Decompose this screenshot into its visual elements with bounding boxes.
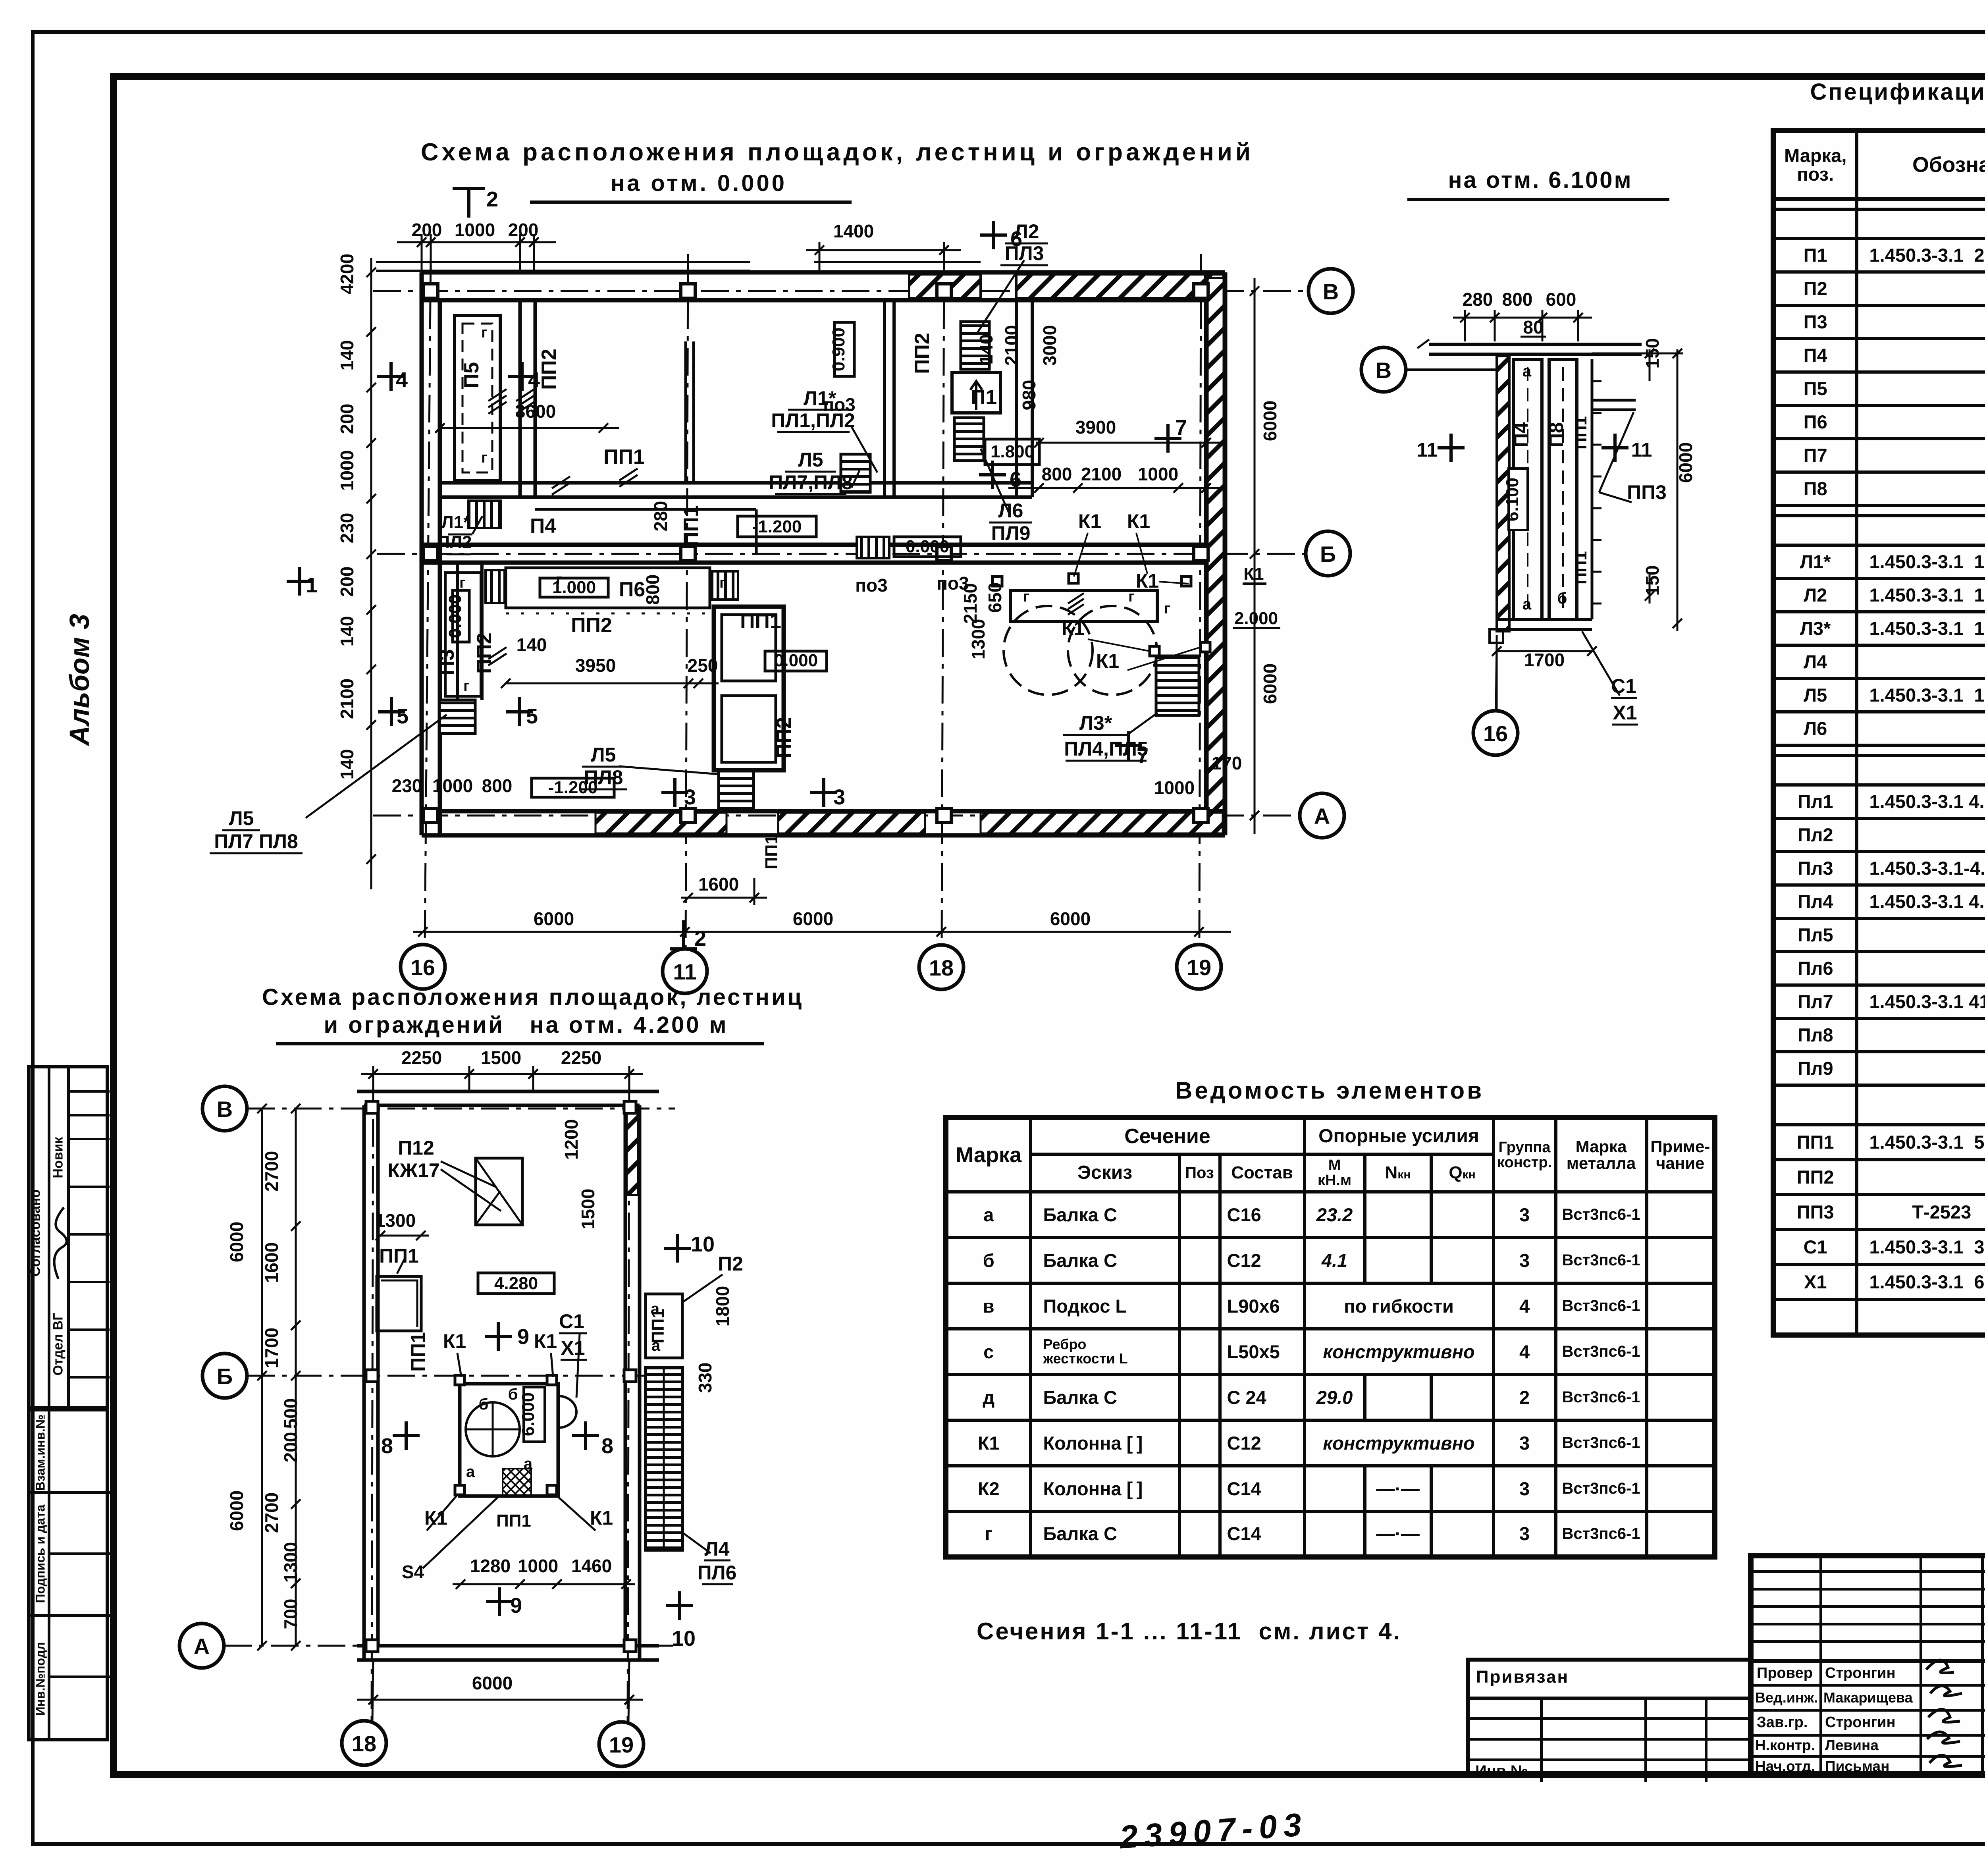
plan2 flag numbers bbox=[381, 1232, 715, 1650]
svg-text:6000: 6000 bbox=[226, 1222, 247, 1262]
axis line 19 bbox=[1199, 254, 1201, 945]
svg-text:2700: 2700 bbox=[261, 1492, 282, 1533]
section left hatched column bbox=[1497, 356, 1509, 631]
stair L6 bbox=[954, 418, 984, 461]
svg-text:3600: 3600 bbox=[515, 401, 556, 422]
svg-text:1600: 1600 bbox=[261, 1242, 282, 1283]
svg-text:Л5: Л5 bbox=[229, 807, 254, 829]
column squares at axis crossings bbox=[424, 284, 1208, 823]
svg-text:4: 4 bbox=[396, 368, 408, 392]
svg-text:2250: 2250 bbox=[401, 1047, 442, 1068]
privyazan block bbox=[1466, 1658, 1752, 1778]
signatures squiggles bbox=[1922, 1654, 1985, 1773]
interior wall vertical 1 bbox=[518, 300, 522, 497]
svg-text:Л3*: Л3* bbox=[1079, 712, 1112, 734]
svg-text:Л4: Л4 bbox=[705, 1538, 730, 1560]
stair L2 top right bbox=[961, 322, 989, 369]
interior wall vertical 3 bbox=[1015, 300, 1018, 497]
svg-text:К1: К1 bbox=[590, 1507, 613, 1529]
svg-text:ПП2: ПП2 bbox=[571, 614, 612, 637]
svg-text:2250: 2250 bbox=[561, 1047, 601, 1068]
svg-text:6000: 6000 bbox=[226, 1490, 247, 1531]
svg-text:150: 150 bbox=[1642, 565, 1663, 596]
svg-text:2: 2 bbox=[694, 927, 706, 951]
svg-text:200: 200 bbox=[337, 404, 357, 434]
dim 800 2100 1000 bbox=[1008, 487, 1225, 489]
svg-text:3: 3 bbox=[684, 785, 696, 809]
plan2 left wall bbox=[362, 1105, 366, 1660]
svg-text:П4: П4 bbox=[1510, 422, 1532, 447]
section В circle bbox=[1361, 347, 1518, 755]
svg-text:3950: 3950 bbox=[575, 655, 616, 676]
svg-text:К1: К1 bbox=[534, 1330, 557, 1352]
svg-text:г: г bbox=[719, 575, 726, 591]
svg-text:КЖ17: КЖ17 bbox=[387, 1159, 439, 1182]
svg-text:А: А bbox=[1314, 804, 1330, 829]
svg-text:11: 11 bbox=[673, 959, 696, 984]
svg-text:г: г bbox=[481, 449, 488, 466]
bottom-left outside dims bbox=[392, 775, 513, 796]
axis circles bbox=[401, 269, 1353, 993]
svg-text:С1: С1 bbox=[559, 1310, 584, 1332]
ПП2 rail line bbox=[506, 613, 710, 615]
axis line 18 bbox=[942, 254, 944, 945]
svg-text:4200: 4200 bbox=[337, 254, 357, 294]
flags plan2 bbox=[393, 1234, 693, 1620]
svg-text:ПП1: ПП1 bbox=[740, 610, 781, 633]
plan2 top wall bbox=[357, 1090, 659, 1093]
svg-text:80: 80 bbox=[1523, 317, 1543, 337]
tank circle 1 bbox=[1004, 606, 1093, 695]
interior wall vertical on axis 11 bbox=[684, 341, 687, 483]
svg-text:П4: П4 bbox=[530, 515, 556, 538]
svg-text:1500: 1500 bbox=[481, 1047, 521, 1068]
svg-text:1000: 1000 bbox=[455, 220, 495, 240]
svg-text:ПП1: ПП1 bbox=[762, 835, 781, 870]
svg-text:600: 600 bbox=[1546, 289, 1576, 310]
svg-text:200: 200 bbox=[337, 567, 357, 597]
К1 column squares bbox=[992, 574, 1210, 656]
svg-text:ПЛ7 ПЛ8: ПЛ7 ПЛ8 bbox=[214, 830, 298, 852]
axis line Б bbox=[377, 553, 1306, 555]
svg-text:4.280: 4.280 bbox=[494, 1274, 538, 1293]
svg-text:ПП1: ПП1 bbox=[1571, 551, 1590, 584]
tank circle 2 bbox=[1068, 606, 1157, 695]
svg-text:П3: П3 bbox=[436, 649, 459, 675]
svg-text:10: 10 bbox=[691, 1232, 715, 1256]
svg-text:230: 230 bbox=[337, 513, 357, 544]
svg-text:650: 650 bbox=[985, 582, 1005, 613]
specification table bbox=[1771, 128, 1985, 1338]
plan2 labels bbox=[379, 1137, 743, 1584]
plan2 axis Б bbox=[247, 1375, 675, 1377]
svg-text:11: 11 bbox=[1631, 439, 1652, 461]
svg-text:1300: 1300 bbox=[968, 619, 989, 659]
svg-text:ПП2: ПП2 bbox=[538, 349, 561, 390]
svg-text:ПП2: ПП2 bbox=[773, 717, 796, 758]
section axis В circle bbox=[1406, 368, 1505, 371]
dim line bottom 6000x3 bbox=[287, 189, 1259, 949]
crosshatch corner bbox=[503, 1469, 531, 1496]
axis line 11 bbox=[686, 254, 688, 949]
flag 2 bottom bbox=[670, 947, 697, 951]
svg-text:9: 9 bbox=[517, 1325, 529, 1349]
svg-text:140: 140 bbox=[516, 634, 547, 655]
section bottom dim bbox=[1497, 650, 1592, 652]
svg-text:2100: 2100 bbox=[1081, 464, 1122, 484]
П12 opening with diagonals bbox=[476, 1158, 522, 1225]
6.000 box bbox=[524, 1387, 545, 1442]
svg-text:ПЛ8: ПЛ8 bbox=[584, 766, 623, 789]
svg-text:330: 330 bbox=[695, 1363, 715, 1393]
svg-text:140: 140 bbox=[337, 340, 357, 371]
svg-text:а: а bbox=[651, 1300, 660, 1318]
svg-text:6: 6 bbox=[1010, 227, 1022, 251]
svg-text:Л1*: Л1* bbox=[441, 513, 470, 532]
svg-text:ПП1: ПП1 bbox=[496, 1511, 531, 1531]
К1 squares plan2 bbox=[455, 1375, 557, 1495]
svg-text:б: б bbox=[479, 1396, 489, 1413]
svg-text:ПП2: ПП2 bbox=[473, 632, 496, 674]
title: section at 6.100 bbox=[1413, 167, 1667, 193]
section right edge with railing ticks bbox=[1591, 359, 1594, 619]
svg-text:г: г bbox=[463, 678, 470, 694]
specification table title bbox=[1779, 79, 1985, 105]
svg-text:К1: К1 bbox=[1078, 510, 1101, 532]
svg-text:1300: 1300 bbox=[280, 1542, 301, 1583]
svg-text:ПП1: ПП1 bbox=[1571, 416, 1590, 449]
svg-text:6000: 6000 bbox=[1260, 663, 1280, 704]
equipment ПП2 block bbox=[714, 607, 784, 770]
svg-text:ПЛ7,ПЛ8: ПЛ7,ПЛ8 bbox=[769, 471, 853, 494]
interior wall horizontal bbox=[440, 481, 1032, 485]
svg-text:280: 280 bbox=[650, 501, 671, 532]
section flags 4,5,6,7,3,1 bbox=[389, 362, 393, 391]
svg-text:1000: 1000 bbox=[518, 1556, 558, 1576]
dim 3900 bbox=[1036, 442, 1223, 444]
svg-text:200: 200 bbox=[280, 1432, 301, 1463]
axis line В bbox=[373, 290, 1309, 292]
svg-text:г: г bbox=[1164, 600, 1170, 617]
dim 1600 bbox=[681, 897, 767, 899]
section top beam bbox=[1429, 343, 1642, 346]
axis line А bbox=[373, 815, 1301, 817]
stair bottom-left Л5 bbox=[439, 700, 475, 734]
svg-text:1400: 1400 bbox=[833, 221, 874, 241]
mid wall on axis Б bbox=[422, 543, 1206, 547]
svg-text:по3: по3 bbox=[855, 575, 887, 596]
dimension numbers bbox=[337, 220, 1280, 929]
svg-text:800: 800 bbox=[642, 575, 663, 605]
svg-text:К1: К1 bbox=[443, 1330, 466, 1352]
section rotated labels bbox=[1417, 362, 1667, 724]
svg-text:К1: К1 bbox=[1243, 564, 1264, 584]
svg-text:2.000: 2.000 bbox=[1234, 609, 1278, 628]
top wall bbox=[422, 270, 1225, 275]
svg-text:200: 200 bbox=[508, 220, 539, 240]
handwritten archive number bbox=[1118, 1806, 1309, 1857]
svg-text:П1: П1 bbox=[971, 386, 997, 409]
svg-text:6000: 6000 bbox=[472, 1673, 513, 1693]
svg-text:250: 250 bbox=[688, 655, 718, 676]
svg-text:Л5: Л5 bbox=[591, 744, 616, 766]
svg-text:6000: 6000 bbox=[1675, 442, 1696, 483]
svg-text:ПП2: ПП2 bbox=[911, 333, 934, 374]
svg-text:ПП1: ПП1 bbox=[379, 1245, 419, 1267]
svg-text:500: 500 bbox=[280, 1398, 301, 1429]
svg-text:S4: S4 bbox=[402, 1562, 424, 1582]
platform P1 bbox=[952, 372, 1000, 413]
svg-text:а: а bbox=[524, 1455, 533, 1473]
plan2 bottom wall bbox=[357, 1644, 659, 1648]
svg-text:19: 19 bbox=[1187, 955, 1211, 980]
sidebar upper stamp table bbox=[27, 1065, 109, 1411]
svg-text:Х1: Х1 bbox=[1613, 702, 1637, 724]
svg-text:ПЛ4,ПЛ5: ПЛ4,ПЛ5 bbox=[1064, 738, 1148, 760]
svg-text:ПП1: ПП1 bbox=[680, 505, 703, 547]
ПП1 box bbox=[377, 1276, 421, 1331]
stair small near 0.000 bbox=[857, 537, 889, 558]
svg-text:г: г bbox=[1128, 588, 1135, 605]
К1 labels bbox=[1062, 510, 1159, 672]
plan2 dims lines bbox=[257, 1066, 643, 1722]
svg-text:К1: К1 bbox=[1096, 650, 1119, 672]
svg-text:800: 800 bbox=[1042, 464, 1072, 484]
svg-text:700: 700 bbox=[280, 1599, 301, 1629]
svg-text:6000: 6000 bbox=[793, 908, 833, 929]
svg-text:150: 150 bbox=[1642, 338, 1663, 369]
svg-text:а: а bbox=[466, 1463, 475, 1481]
title: vedomost bbox=[1175, 1077, 1457, 1104]
svg-text:а: а bbox=[651, 1337, 661, 1354]
right wall bbox=[1204, 272, 1208, 835]
svg-text:1.800: 1.800 bbox=[991, 442, 1034, 461]
plan2 axis 18 bbox=[372, 1072, 373, 1721]
stair left Л1* bbox=[468, 501, 501, 528]
canopy edge above top wall bbox=[376, 261, 750, 263]
section right dims bbox=[1677, 349, 1679, 631]
svg-text:800: 800 bbox=[1502, 289, 1533, 310]
svg-text:6: 6 bbox=[1010, 468, 1021, 492]
svg-text:5: 5 bbox=[526, 704, 538, 728]
svg-text:К1: К1 bbox=[1062, 617, 1085, 640]
svg-text:1280: 1280 bbox=[470, 1556, 511, 1576]
svg-text:6.100: 6.100 bbox=[1503, 478, 1522, 521]
svg-text:г: г bbox=[1023, 588, 1029, 605]
plan2 column squares bbox=[366, 1101, 636, 1652]
title: scheme at elevation 4.200 bbox=[262, 984, 790, 1010]
svg-text:П6: П6 bbox=[619, 578, 645, 601]
svg-text:140: 140 bbox=[976, 334, 996, 365]
svg-text:2100: 2100 bbox=[1001, 325, 1022, 366]
svg-text:3000: 3000 bbox=[1039, 325, 1060, 366]
svg-text:16: 16 bbox=[410, 955, 435, 980]
svg-text:1000: 1000 bbox=[1154, 777, 1195, 798]
svg-text:3: 3 bbox=[833, 785, 845, 809]
shaft П3 walls bbox=[456, 563, 459, 700]
svg-text:0.000: 0.000 bbox=[906, 537, 949, 556]
svg-text:10: 10 bbox=[672, 1627, 696, 1650]
svg-text:б: б bbox=[1557, 590, 1567, 607]
svg-text:18: 18 bbox=[352, 1731, 376, 1756]
svg-text:Б: Б bbox=[217, 1364, 233, 1389]
svg-text:1600: 1600 bbox=[698, 874, 739, 895]
svg-text:ПЛ6: ПЛ6 bbox=[698, 1562, 737, 1584]
album 3 vertical handwritten bbox=[64, 612, 95, 747]
svg-text:1000: 1000 bbox=[337, 450, 357, 491]
plan2 right wall bbox=[624, 1105, 627, 1646]
svg-text:Б: Б bbox=[1320, 542, 1336, 567]
П2 platform right bbox=[646, 1294, 682, 1358]
stair П6 room bbox=[486, 570, 505, 603]
svg-text:П5: П5 bbox=[460, 362, 483, 388]
vedomost table bbox=[943, 1115, 1717, 1560]
svg-text:0.900: 0.900 bbox=[829, 328, 848, 371]
svg-text:В: В bbox=[1323, 279, 1339, 304]
svg-text:6000: 6000 bbox=[1050, 908, 1091, 929]
section top-right bracket ПП3 bbox=[1592, 399, 1636, 402]
svg-text:Л1*: Л1* bbox=[804, 387, 836, 409]
dim 3950 250 bbox=[506, 683, 719, 684]
dim top 1400 bbox=[806, 249, 961, 251]
svg-text:Х1: Х1 bbox=[561, 1337, 585, 1359]
section flag numbers bbox=[306, 187, 1187, 951]
svg-text:Л6: Л6 bbox=[998, 499, 1023, 522]
bottom wall bbox=[422, 809, 1225, 814]
plan2 axis А bbox=[224, 1645, 675, 1647]
svg-text:2: 2 bbox=[486, 187, 498, 211]
title: scheme at elevation 0.000 bbox=[421, 138, 1171, 166]
svg-text:8: 8 bbox=[601, 1434, 613, 1458]
svg-text:г: г bbox=[556, 571, 562, 588]
svg-text:170: 170 bbox=[1212, 753, 1242, 773]
section bottom bbox=[1497, 618, 1592, 621]
svg-text:1700: 1700 bbox=[1524, 650, 1565, 670]
title block (stamp) bbox=[1748, 1553, 1985, 1778]
left small rows bbox=[1754, 1570, 1985, 1573]
left dim chain line bbox=[370, 258, 372, 889]
svg-text:140: 140 bbox=[337, 616, 357, 647]
wall hatch marks bbox=[488, 389, 1084, 665]
svg-text:18: 18 bbox=[929, 955, 954, 980]
svg-text:А: А bbox=[194, 1634, 210, 1659]
plan2 dim numbers bbox=[226, 1047, 733, 1693]
svg-text:1800: 1800 bbox=[712, 1286, 733, 1327]
section flags 11 bbox=[1449, 434, 1453, 462]
svg-text:2700: 2700 bbox=[261, 1151, 282, 1192]
svg-text:280: 280 bbox=[1463, 289, 1493, 310]
svg-text:ПП1: ПП1 bbox=[407, 1332, 429, 1372]
svg-text:ПЛ1,ПЛ2: ПЛ1,ПЛ2 bbox=[771, 409, 855, 432]
svg-text:П8: П8 bbox=[1545, 422, 1567, 447]
svg-text:Л5: Л5 bbox=[798, 449, 823, 471]
svg-text:1700: 1700 bbox=[261, 1328, 282, 1368]
svg-text:4: 4 bbox=[528, 368, 540, 392]
axis line 16 bbox=[425, 254, 431, 945]
svg-text:980: 980 bbox=[1019, 380, 1039, 411]
section top dims bbox=[1453, 310, 1683, 715]
svg-text:8: 8 bbox=[381, 1434, 393, 1458]
long stair right bbox=[646, 1368, 682, 1550]
svg-text:7: 7 bbox=[1175, 416, 1187, 440]
svg-text:6000: 6000 bbox=[1260, 401, 1280, 441]
tank platform bbox=[1010, 590, 1157, 621]
stair bottom-right Л3* bbox=[1156, 656, 1199, 715]
leader labels with underline bbox=[214, 220, 1148, 852]
stair L5 mid bbox=[841, 454, 870, 492]
flag 2 top bbox=[453, 187, 485, 190]
svg-text:П12: П12 bbox=[398, 1137, 434, 1159]
plan2 level boxes bbox=[478, 1273, 554, 1294]
svg-text:г: г bbox=[481, 324, 488, 341]
svg-text:11: 11 bbox=[1417, 439, 1438, 461]
tank circle bbox=[466, 1402, 520, 1456]
П6 platform band bbox=[506, 568, 710, 608]
small г letters bbox=[459, 324, 1170, 694]
svg-text:1200: 1200 bbox=[561, 1119, 582, 1160]
svg-text:1460: 1460 bbox=[571, 1556, 612, 1576]
svg-text:0.000: 0.000 bbox=[445, 594, 465, 638]
svg-text:ПП3: ПП3 bbox=[1627, 481, 1667, 503]
svg-text:9: 9 bbox=[510, 1594, 522, 1618]
dim 3600 bbox=[440, 427, 619, 429]
dim top-left 200 1000 200 bbox=[397, 241, 556, 243]
svg-text:19: 19 bbox=[609, 1732, 634, 1757]
stair shaft П5 bbox=[455, 316, 500, 480]
svg-text:К1: К1 bbox=[1136, 570, 1159, 592]
svg-text:В: В bbox=[1376, 358, 1391, 383]
svg-text:1300: 1300 bbox=[375, 1210, 416, 1231]
svg-text:г: г bbox=[459, 575, 466, 591]
svg-text:1: 1 bbox=[306, 573, 318, 597]
left wall bbox=[420, 272, 424, 835]
plan2 circles bbox=[179, 1086, 644, 1766]
svg-text:а: а bbox=[1522, 596, 1532, 613]
signature rows text bbox=[1757, 1665, 1813, 1682]
section 16 axis bbox=[1496, 643, 1497, 711]
svg-text:К1: К1 bbox=[1127, 510, 1150, 532]
svg-text:2150: 2150 bbox=[960, 583, 981, 624]
svg-text:1500: 1500 bbox=[578, 1189, 598, 1229]
svg-text:800: 800 bbox=[482, 775, 513, 796]
П4 platform outline bbox=[535, 508, 756, 511]
svg-text:5: 5 bbox=[397, 704, 409, 728]
note: sections 1-1..11-11 see sheet 4 bbox=[977, 1618, 1401, 1645]
svg-text:1000: 1000 bbox=[1138, 464, 1178, 484]
svg-text:К1: К1 bbox=[424, 1507, 447, 1529]
tank square bbox=[460, 1384, 558, 1496]
plan2 axis В bbox=[247, 1108, 675, 1110]
svg-text:7: 7 bbox=[1137, 744, 1149, 768]
svg-text:16: 16 bbox=[1483, 721, 1508, 746]
svg-text:140: 140 bbox=[337, 749, 357, 780]
section П4 strip bbox=[1513, 359, 1542, 619]
svg-text:6.000: 6.000 bbox=[518, 1392, 538, 1436]
svg-text:ПП1: ПП1 bbox=[603, 445, 645, 469]
svg-text:2100: 2100 bbox=[337, 679, 357, 719]
plan2 axis 19 bbox=[628, 1072, 629, 1722]
svg-text:0.000: 0.000 bbox=[774, 651, 818, 670]
svg-text:С1: С1 bbox=[1611, 675, 1636, 697]
sidebar lower stamp table bbox=[27, 1406, 109, 1741]
svg-text:ПЛ9: ПЛ9 bbox=[991, 522, 1031, 544]
svg-text:а: а bbox=[1522, 362, 1532, 380]
plan2 leaders bbox=[397, 1161, 723, 1568]
svg-text:П2: П2 bbox=[718, 1253, 743, 1275]
svg-text:230: 230 bbox=[392, 775, 422, 796]
svg-text:В: В bbox=[217, 1097, 233, 1122]
section 6.100 box bbox=[1509, 469, 1528, 530]
